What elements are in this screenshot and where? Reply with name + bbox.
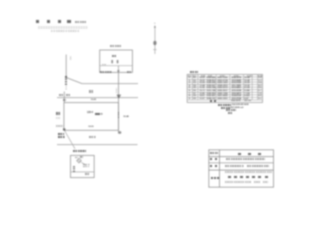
detail box label [110,45,121,47]
summary stamp mark [228,112,233,114]
table column: point codes [193,77,196,100]
inset GL text [85,173,91,175]
dim arrows in detail box [111,60,113,63]
inset mid texts [83,164,90,166]
small dim text above wall line [102,64,105,66]
road upper line [82,83,138,85]
parcel boundary [64,103,119,131]
faint address row [51,30,80,32]
detail box bottom row texts [100,71,112,73]
label below parcel [89,136,96,138]
title block box [209,150,274,187]
table column: dist [244,77,249,100]
boundary vertical line upper-left [65,55,67,78]
faint bleed-through row upper [38,26,88,28]
title block row 4 line a [225,171,272,173]
table column: group 2 [206,77,215,100]
corner circle marker bottom-right [119,131,122,134]
parcel number and type [87,112,93,115]
lower waterway line [57,144,138,146]
marker point label [116,88,117,93]
title block row 4 line b [228,176,231,179]
inset top text [75,157,79,159]
main svg drawing layer [0,0,280,198]
right boundary tick text [118,112,120,118]
maguchi text [112,55,118,57]
GL line in inset [71,171,94,173]
survey marker triangle on road line [116,95,121,99]
bottom dimension [88,126,93,129]
table header texts [188,75,191,77]
table column: X coords [217,77,227,100]
title block row 2 [210,158,212,160]
junction stub to parcel corner [63,92,65,103]
table column: Y coords dark [231,77,241,100]
title block row 4 line c [225,181,251,183]
summary line 2 [221,107,230,109]
leader line in inset [81,162,86,165]
north arrow [153,23,156,55]
inset left vertical dim [73,166,75,172]
title block row 4 label [211,177,213,179]
left dimension [56,112,61,115]
title block row 1 [210,152,218,154]
summary line 3 [226,109,237,111]
internal wall line of detail box [100,65,133,67]
junction labels [59,94,63,96]
table title [190,71,198,73]
arrow mark in detail box [117,70,120,72]
summary line 1 [218,104,231,106]
left faint mark below [56,117,60,119]
tick dots under diagonal start [66,86,67,87]
table column: right small [258,77,261,100]
scale note [75,21,86,23]
inset detail box [71,155,95,177]
top dimension [91,99,96,102]
total row [210,100,212,102]
leader diagonal to inset [65,131,76,149]
table column: group 1 [199,77,204,100]
long boundary vertical through roads [118,72,120,133]
corner cluster texts [56,125,63,127]
title kanji blobs [36,20,39,23]
coordinate table grid [187,74,262,102]
faint mark near line top [70,56,71,60]
table column: row numbers [189,77,190,100]
right dimension [123,116,128,119]
road lower line [57,97,138,99]
boundary stone diamond in inset [77,158,82,163]
corner tick bottom-left [63,128,65,130]
diagonal into road [66,78,82,84]
inset label [73,150,86,152]
vertical dark text on boundary line [65,76,67,85]
waterway label [89,90,94,92]
survey point dot in parcel [101,113,103,115]
frontage detail box [100,50,133,72]
title block row 3 [210,165,212,167]
